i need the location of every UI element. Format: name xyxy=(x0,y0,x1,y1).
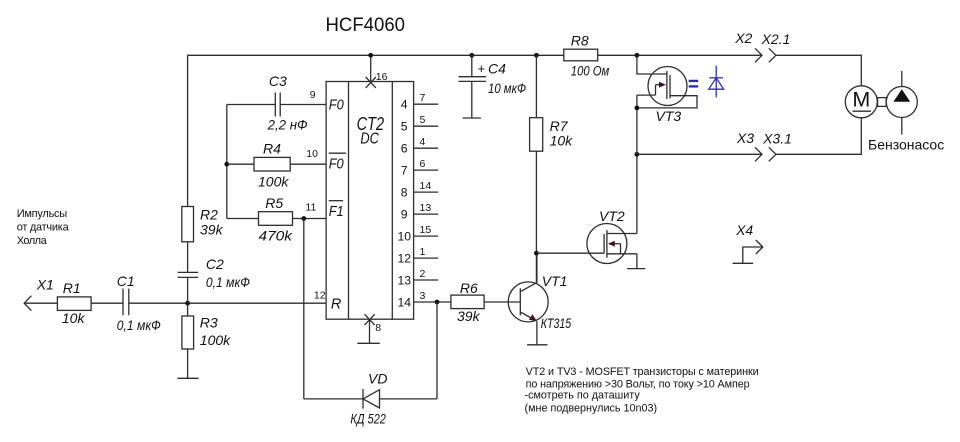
svg-text:Бензонасос: Бензонасос xyxy=(868,136,944,152)
svg-text:16: 16 xyxy=(376,71,388,83)
wire R6 to VT1 base xyxy=(484,301,520,303)
wire X3 line from node to connector xyxy=(637,153,762,155)
svg-text:100 Ом: 100 Ом xyxy=(571,62,610,78)
connector X3.1 chevron xyxy=(769,147,776,161)
ground X4 xyxy=(733,262,754,264)
svg-text:10: 10 xyxy=(398,229,412,243)
svg-text:X1: X1 xyxy=(36,277,54,293)
node VT3 bottom junction dot xyxy=(635,106,640,111)
node rail/pin16 junction dot xyxy=(368,53,373,58)
connector X2.1 chevron xyxy=(769,48,776,62)
stub Q4 pin 7 xyxy=(401,92,438,112)
svg-text:HCF4060: HCF4060 xyxy=(326,14,406,36)
wire VT3 source bus vertical xyxy=(636,95,638,154)
IC internal divider right xyxy=(391,82,393,320)
wire X4 xyxy=(743,247,763,263)
pin 8 cross mark xyxy=(365,314,375,325)
svg-text:5: 5 xyxy=(420,114,426,126)
svg-text:C4: C4 xyxy=(488,61,506,77)
pin 16 cross mark xyxy=(366,77,376,88)
svg-text:10k: 10k xyxy=(550,132,574,148)
wire VT2 source to ground xyxy=(636,254,638,269)
svg-text:4: 4 xyxy=(401,98,408,112)
resistor R1 xyxy=(57,297,91,311)
svg-text:(мне подвернулись 10n03): (мне подвернулись 10n03) xyxy=(525,403,658,415)
node rail/VT3 junction dot xyxy=(635,53,640,58)
svg-text:КД 522: КД 522 xyxy=(350,411,386,427)
svg-text:1: 1 xyxy=(420,246,426,258)
wire pin 8 to ground xyxy=(369,319,371,343)
wire VD row right xyxy=(380,398,438,400)
svg-text:10 мкФ: 10 мкФ xyxy=(488,80,526,96)
wire top rail to pin 16 xyxy=(370,55,372,81)
svg-text:+: + xyxy=(478,61,486,76)
IC label F0 inverted xyxy=(329,153,346,172)
transistor VT3 MOSFET xyxy=(637,67,697,108)
node A junction dot xyxy=(185,301,190,306)
svg-text:10k: 10k xyxy=(62,310,86,326)
svg-text:9: 9 xyxy=(310,89,316,101)
stub Q12 pin 1 xyxy=(398,246,439,266)
node X3 line junction dot xyxy=(635,152,640,157)
wire R7 down to VT1 collector node xyxy=(535,151,537,282)
wire feedback vertical (C3/R4/R5 left bus) xyxy=(226,105,228,219)
svg-text:X4: X4 xyxy=(735,222,753,238)
ground below R3 xyxy=(177,377,198,379)
wire VD row left xyxy=(304,398,363,400)
shaft coupling xyxy=(878,98,887,107)
wire R8 to X2 xyxy=(598,54,762,56)
svg-text:8: 8 xyxy=(375,322,381,334)
wire C2 to node A xyxy=(187,277,189,303)
wire R3 to ground xyxy=(187,349,189,378)
capacitor C2 xyxy=(178,272,199,277)
svg-text:VD: VD xyxy=(368,371,387,387)
wire node A to R3 xyxy=(187,303,189,316)
wire R2 to C2 xyxy=(187,242,189,273)
resistor R2 xyxy=(182,207,194,242)
wire rail to C4 xyxy=(471,55,473,76)
svg-text:13: 13 xyxy=(398,273,412,287)
capacitor C1 xyxy=(123,289,129,316)
svg-text:100k: 100k xyxy=(258,173,289,189)
diode equivalent (blue) xyxy=(709,66,724,98)
wire VT1 collector up xyxy=(536,253,538,282)
pump symbol xyxy=(886,71,917,135)
resistor R3 xyxy=(182,316,194,349)
svg-text:12: 12 xyxy=(398,251,412,265)
node feedback junction dot at R4 row xyxy=(224,162,229,167)
wire VT2 gate from node xyxy=(536,252,604,254)
svg-text:R3: R3 xyxy=(200,314,218,330)
wire C1 to IC pin 12 (node A junction) xyxy=(129,302,326,304)
wire rail to R7 xyxy=(535,55,537,117)
stub Q6 pin 4 xyxy=(401,136,438,156)
resistor R5 xyxy=(259,212,293,226)
wire top rail left segment xyxy=(188,55,564,206)
node rail/C4 junction dot xyxy=(469,53,474,58)
note text block xyxy=(525,366,759,415)
wire VT2 drain up to X3 node xyxy=(636,154,638,233)
svg-text:F0: F0 xyxy=(329,156,344,172)
wire VT1 emitter to ground xyxy=(536,321,538,345)
wire bus to R4 xyxy=(227,163,254,165)
svg-text:R8: R8 xyxy=(571,32,589,48)
wire R1 to C1 xyxy=(91,302,123,304)
connector X3 chevron xyxy=(755,147,762,161)
wire X2.1 to motor xyxy=(776,55,861,86)
connector X2 chevron xyxy=(755,48,762,62)
svg-text:F1: F1 xyxy=(329,204,344,220)
stub Q14 pin 3 output wire to R6 xyxy=(398,290,451,310)
svg-text:X2: X2 xyxy=(734,30,752,46)
wire R5 to IC pin 11 xyxy=(293,218,327,220)
svg-text:F0: F0 xyxy=(329,97,344,113)
stub Q10 pin 15 xyxy=(398,224,439,244)
svg-text:6: 6 xyxy=(401,142,408,156)
IC U1 CT2 body xyxy=(326,82,414,320)
equals sign (VT3 equivalent) xyxy=(689,81,699,87)
svg-text:12: 12 xyxy=(314,290,326,302)
svg-text:C2: C2 xyxy=(206,256,224,272)
diode VD xyxy=(363,389,380,409)
node pin3/VD junction dot xyxy=(435,300,440,305)
svg-text:39k: 39k xyxy=(200,221,224,237)
svg-text:2,2 нФ: 2,2 нФ xyxy=(267,117,308,133)
wire X3.1 to motor xyxy=(776,118,861,155)
wire R4 to IC pin 10 xyxy=(290,163,326,165)
C4 bottom terminal bar xyxy=(463,117,481,119)
svg-text:X2.1: X2.1 xyxy=(761,31,791,47)
ground below VT2 xyxy=(627,268,645,270)
ground below VT1 xyxy=(527,344,547,346)
stub Q9 pin 13 xyxy=(401,202,438,222)
svg-text:3: 3 xyxy=(420,290,426,302)
node R7/VT1/VT2-gate junction dot xyxy=(534,251,539,256)
svg-text:R6: R6 xyxy=(460,280,478,296)
IC label F1 inverted xyxy=(329,201,344,220)
svg-text:VT2 и TV3 - MOSFET транзистор: VT2 и TV3 - MOSFET транзисторы с материн… xyxy=(526,366,759,378)
ground below IC xyxy=(357,342,379,344)
svg-text:DC: DC xyxy=(360,131,379,148)
svg-text:M: M xyxy=(852,87,870,111)
svg-text:КТ315: КТ315 xyxy=(541,315,572,331)
stub Q7 pin 6 xyxy=(401,158,438,178)
svg-text:9: 9 xyxy=(401,207,408,221)
transistor VT2 MOSFET xyxy=(587,224,637,264)
wire VD branch left vertical xyxy=(303,219,305,399)
svg-text:14: 14 xyxy=(398,295,412,309)
wire bus to R5 xyxy=(227,218,259,220)
wire rail down to VT3 drain lead xyxy=(637,55,667,74)
stub Q8 pin 14 xyxy=(401,180,438,200)
svg-text:от датчика: от датчика xyxy=(17,222,70,234)
svg-text:100k: 100k xyxy=(200,332,231,348)
svg-text:11: 11 xyxy=(305,202,316,214)
node rail/R7 junction dot xyxy=(534,53,539,58)
svg-text:C1: C1 xyxy=(117,273,135,289)
svg-text:0,1 мкФ: 0,1 мкФ xyxy=(206,274,250,290)
svg-text:5: 5 xyxy=(401,120,408,134)
svg-text:R: R xyxy=(331,297,342,313)
IC internal divider left xyxy=(348,82,350,320)
svg-text:VT1: VT1 xyxy=(542,273,568,289)
svg-text:6: 6 xyxy=(420,158,426,170)
resistor R4 xyxy=(254,157,290,171)
wire C4 to terminal bar xyxy=(471,81,473,118)
svg-text:2: 2 xyxy=(420,268,426,280)
connector X4 chevron xyxy=(756,240,763,254)
svg-text:Импульсы: Импульсы xyxy=(17,208,68,220)
svg-text:15: 15 xyxy=(420,224,432,236)
svg-text:R2: R2 xyxy=(200,206,218,222)
transistor VT1 xyxy=(508,282,548,322)
svg-text:0,1 мкФ: 0,1 мкФ xyxy=(117,317,161,333)
svg-text:R5: R5 xyxy=(265,195,283,211)
node VD tap junction dot on pin 11 wire xyxy=(301,216,306,221)
svg-text:39k: 39k xyxy=(457,308,481,324)
svg-text:R7: R7 xyxy=(550,118,569,134)
svg-text:4: 4 xyxy=(420,136,426,148)
svg-text:14: 14 xyxy=(420,180,432,192)
wire X1 to R1 xyxy=(24,302,57,304)
svg-text:-смотреть по даташиту: -смотреть по даташиту xyxy=(525,390,641,402)
svg-text:R1: R1 xyxy=(63,280,81,296)
svg-text:7: 7 xyxy=(420,92,426,104)
connector X1 xyxy=(24,296,31,311)
resistor R8 xyxy=(564,49,598,61)
stub Q5 pin 5 xyxy=(401,114,438,134)
capacitor C3 xyxy=(275,93,280,117)
svg-text:Холла: Холла xyxy=(17,235,48,247)
svg-text:470k: 470k xyxy=(259,228,294,244)
hall sensor input note xyxy=(17,208,70,247)
wire bus to C3 xyxy=(227,104,275,106)
svg-text:R4: R4 xyxy=(263,141,281,157)
svg-text:8: 8 xyxy=(401,185,408,199)
resistor R7 xyxy=(530,118,543,152)
svg-text:10: 10 xyxy=(306,148,318,160)
svg-text:VT2: VT2 xyxy=(599,208,625,224)
wire C3 to IC pin 9 xyxy=(280,104,326,106)
capacitor C4 polarized xyxy=(459,77,487,82)
svg-text:7: 7 xyxy=(401,163,408,177)
svg-text:VT3: VT3 xyxy=(656,108,682,124)
svg-text:X3: X3 xyxy=(736,130,754,146)
svg-text:13: 13 xyxy=(420,202,432,214)
motor M1 xyxy=(845,86,877,118)
svg-text:X3.1: X3.1 xyxy=(762,130,792,146)
wire VD branch right vertical xyxy=(436,302,438,399)
svg-text:C3: C3 xyxy=(269,73,287,89)
resistor R6 xyxy=(451,295,484,309)
stub Q13 pin 2 xyxy=(398,268,439,288)
